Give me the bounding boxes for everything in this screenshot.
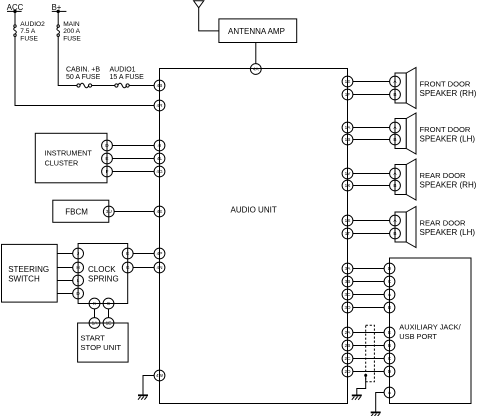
pin 1A start stop unit (89, 318, 100, 329)
svg-text:50 A FUSE: 50 A FUSE (66, 74, 101, 81)
pin E aux jack (384, 327, 395, 338)
svg-text:D: D (105, 143, 109, 148)
wire (353, 281, 384, 283)
svg-text:4R: 4R (157, 103, 164, 108)
svg-text:4E: 4E (157, 209, 163, 214)
pin B aux jack (384, 302, 395, 313)
pin 2B (342, 340, 353, 351)
svg-text:1F: 1F (345, 92, 351, 97)
pin H clock spring (73, 262, 84, 273)
pin 1E (342, 76, 353, 87)
svg-text:4W: 4W (156, 373, 164, 378)
svg-text:REAR DOOR: REAR DOOR (420, 218, 467, 227)
fuse AUDIO1 15 A (110, 67, 145, 88)
pin 4I (154, 140, 165, 151)
pin A speaker SP1 (390, 76, 401, 87)
svg-text:SPEAKER (LH): SPEAKER (LH) (420, 134, 476, 143)
pin B speaker SP4 (390, 228, 401, 239)
svg-text:L: L (77, 278, 80, 283)
fuse CABIN. +B 50 A (66, 67, 101, 88)
wire (114, 211, 154, 213)
svg-text:INSTRUMENT: INSTRUMENT (45, 148, 93, 157)
wire to speaker SP1 + (353, 81, 390, 83)
svg-text:B: B (393, 92, 396, 97)
svg-text:1E: 1E (345, 79, 351, 84)
wire to speaker SP4 + (353, 220, 390, 222)
pin L clock spring (73, 275, 84, 286)
svg-text:CABIN. +B: CABIN. +B (66, 67, 100, 74)
wire (353, 307, 384, 309)
svg-text:CLOCK: CLOCK (88, 265, 116, 274)
pin 2D (342, 366, 353, 377)
pin D instrument cluster (102, 140, 113, 151)
pin 1V (342, 168, 353, 179)
svg-text:7.5 A: 7.5 A (20, 28, 36, 35)
svg-text:SPEAKER (RH): SPEAKER (RH) (420, 89, 477, 98)
pin 1S (342, 215, 353, 226)
pin 4E (154, 206, 165, 217)
fuse MAIN 200 A (57, 21, 82, 43)
svg-text:E: E (126, 251, 129, 256)
svg-text:1V: 1V (345, 171, 352, 176)
fuse AUDIO2 7.5 A (14, 21, 46, 43)
pin 2C (342, 353, 353, 364)
svg-text:FUSE: FUSE (63, 35, 81, 42)
pin C clock spring (103, 298, 114, 309)
ground (352, 395, 362, 399)
svg-text:B: B (388, 343, 391, 348)
svg-text:4L: 4L (157, 156, 163, 161)
ground (138, 395, 148, 399)
pin E instrument cluster (102, 153, 113, 164)
svg-text:AUDIO1: AUDIO1 (110, 67, 136, 74)
pin 4L (154, 153, 165, 164)
svg-text:2B: 2B (345, 343, 351, 348)
wire (112, 158, 154, 160)
pin 2A (342, 327, 353, 338)
pin A speaker SP3 (390, 168, 401, 179)
wire ACC down (14, 11, 16, 25)
svg-text:A: A (388, 292, 392, 297)
pin B speaker SP1 (390, 89, 401, 100)
auxiliary jack / usb port box (390, 258, 472, 404)
svg-text:B: B (388, 305, 391, 310)
pin K clock spring (89, 298, 100, 309)
wire B+ to CABIN fuse (58, 36, 77, 85)
pin 3U FBCM (103, 206, 114, 217)
wire (57, 280, 73, 282)
svg-text:3D: 3D (345, 305, 352, 310)
svg-text:SPEAKER (RH): SPEAKER (RH) (420, 180, 477, 189)
wire (112, 171, 154, 173)
svg-text:2D: 2D (345, 369, 352, 374)
ground (371, 412, 381, 416)
svg-text:4G: 4G (156, 169, 163, 174)
pin F instrument cluster (102, 166, 113, 177)
wire to speaker SP4 - (353, 233, 390, 235)
svg-text:E: E (388, 330, 391, 335)
pin A aux jack (384, 289, 395, 300)
wire to speaker SP2 + (353, 127, 390, 129)
pin E clock spring (122, 248, 133, 259)
wire to speaker SP1 - (353, 94, 390, 96)
svg-text:1B: 1B (345, 137, 351, 142)
speaker SP4 REAR DOOR SPEAKER (LH) (395, 207, 475, 248)
wire (353, 371, 384, 373)
svg-text:G: G (126, 265, 130, 270)
wire (133, 253, 154, 255)
wire (94, 309, 96, 318)
svg-text:2A: 2A (345, 330, 352, 335)
pin 4G (154, 166, 165, 177)
wire (353, 358, 384, 360)
wire (57, 253, 73, 255)
pin B speaker SP3 (390, 180, 401, 191)
clock spring (78, 244, 128, 304)
antenna amp U1 (219, 19, 297, 43)
start stop unit (78, 323, 129, 362)
svg-text:4B: 4B (157, 83, 163, 88)
pin D aux jack (384, 263, 395, 274)
wire between fuses (92, 85, 116, 87)
svg-text:D: D (76, 291, 80, 296)
svg-text:4A: 4A (253, 67, 260, 72)
wire amp to pin 4A (255, 43, 257, 64)
svg-text:B: B (393, 231, 396, 236)
svg-text:A: A (393, 171, 397, 176)
pin 1B (342, 134, 353, 145)
svg-text:MAIN: MAIN (63, 21, 80, 28)
wire to speaker SP3 + (353, 173, 390, 175)
wire (353, 294, 384, 296)
svg-text:3C: 3C (345, 292, 352, 297)
svg-text:A: A (393, 125, 397, 130)
wire to speaker SP3 - (353, 185, 390, 187)
pin 4W (154, 370, 165, 381)
FBCM (53, 200, 109, 222)
svg-text:F: F (106, 169, 109, 174)
svg-text:STOP UNIT: STOP UNIT (80, 343, 121, 352)
svg-text:4I: 4I (158, 143, 162, 148)
pin 1A (342, 122, 353, 133)
node B+ (52, 3, 67, 13)
pin 3A (342, 263, 353, 274)
svg-text:1A: 1A (345, 125, 352, 130)
pin 3D (342, 302, 353, 313)
svg-text:4P: 4P (157, 251, 163, 256)
steering switch (2, 244, 58, 302)
pin 4A (250, 64, 261, 75)
pin 4N (154, 262, 165, 273)
pin 4P (154, 248, 165, 259)
wire shield to ground (357, 375, 366, 395)
svg-text:FBCM: FBCM (65, 207, 88, 216)
pin 1X (342, 180, 353, 191)
svg-text:A: A (388, 390, 392, 395)
pin C aux jack (384, 276, 395, 287)
pin 3B (342, 276, 353, 287)
wire antenna to amp (199, 8, 219, 31)
shield (dashed) (366, 325, 375, 382)
svg-text:H: H (76, 265, 79, 270)
svg-text:B: B (393, 137, 396, 142)
svg-text:1A: 1A (92, 321, 99, 326)
node ACC (7, 3, 24, 13)
pin C aux jack (384, 353, 395, 364)
svg-text:E: E (105, 156, 108, 161)
instrument cluster (35, 133, 107, 183)
pin A speaker SP2 (390, 122, 401, 133)
svg-text:START: START (80, 334, 105, 343)
svg-text:1T: 1T (345, 231, 351, 236)
wire (112, 145, 154, 147)
wire to speaker SP2 - (353, 139, 390, 141)
pin 1F (342, 89, 353, 100)
pin 4R (154, 100, 165, 111)
svg-text:15 A FUSE: 15 A FUSE (110, 74, 145, 81)
pin 1E start stop unit (103, 318, 114, 329)
svg-text:B+: B+ (52, 3, 62, 12)
pin J clock spring (73, 248, 84, 259)
speaker SP3 REAR DOOR SPEAKER (RH) (395, 159, 477, 200)
svg-text:STEERING: STEERING (8, 265, 49, 274)
wire (57, 267, 73, 269)
pin B speaker SP2 (390, 134, 401, 145)
wire ACC to pin 4R (15, 36, 154, 105)
wire (133, 267, 154, 269)
node shield drain (364, 374, 367, 377)
svg-text:D: D (388, 369, 392, 374)
svg-text:A: A (393, 79, 397, 84)
svg-text:3A: 3A (345, 266, 352, 271)
pin D aux jack (384, 366, 395, 377)
wire (353, 332, 384, 334)
svg-text:3U: 3U (106, 209, 113, 214)
wire B+ down (57, 11, 59, 25)
wire aux A to ground (376, 393, 385, 413)
wire (57, 293, 73, 295)
svg-text:C: C (388, 356, 392, 361)
svg-text:AUXILIARY JACK/: AUXILIARY JACK/ (399, 323, 461, 332)
svg-text:FUSE: FUSE (20, 35, 38, 42)
pin A aux jack (384, 387, 395, 398)
speaker SP2 FRONT DOOR SPEAKER (LH) (395, 113, 475, 154)
svg-text:FRONT DOOR: FRONT DOOR (420, 125, 471, 134)
svg-text:SPRING: SPRING (88, 274, 119, 283)
svg-text:USB PORT: USB PORT (399, 332, 437, 341)
wire (353, 345, 384, 347)
wire (108, 309, 110, 318)
svg-text:FRONT DOOR: FRONT DOOR (420, 79, 471, 88)
svg-text:A: A (393, 218, 397, 223)
svg-text:REAR DOOR: REAR DOOR (420, 171, 467, 180)
wire (353, 268, 384, 270)
wire to pin 4B (129, 85, 154, 87)
svg-text:4N: 4N (157, 265, 163, 270)
svg-text:3B: 3B (345, 279, 351, 284)
svg-text:CLUSTER: CLUSTER (45, 158, 79, 167)
wire 4W to ground (143, 376, 154, 396)
pin 3C (342, 289, 353, 300)
svg-text:2C: 2C (345, 356, 352, 361)
pin A speaker SP4 (390, 215, 401, 226)
svg-text:SWITCH: SWITCH (8, 274, 40, 283)
svg-text:AUDIO2: AUDIO2 (20, 21, 45, 28)
svg-text:D: D (388, 266, 392, 271)
antenna (194, 1, 204, 8)
svg-text:AUDIO UNIT: AUDIO UNIT (231, 205, 277, 214)
speaker SP1 FRONT DOOR SPEAKER (RH) (395, 68, 477, 109)
svg-text:200 A: 200 A (63, 28, 80, 35)
pin 4B (154, 80, 165, 91)
svg-text:J: J (77, 251, 79, 256)
svg-text:B: B (393, 183, 396, 188)
pin G clock spring (122, 262, 133, 273)
audio unit box (160, 69, 348, 404)
svg-text:1X: 1X (345, 183, 352, 188)
pin D clock spring (73, 288, 84, 299)
svg-text:C: C (388, 279, 392, 284)
svg-text:ANTENNA AMP: ANTENNA AMP (228, 27, 285, 36)
svg-text:1E: 1E (106, 321, 112, 326)
svg-text:SPEAKER (LH): SPEAKER (LH) (420, 228, 476, 237)
pin B aux jack (384, 340, 395, 351)
svg-text:1S: 1S (345, 218, 351, 223)
pin 1T (342, 228, 353, 239)
